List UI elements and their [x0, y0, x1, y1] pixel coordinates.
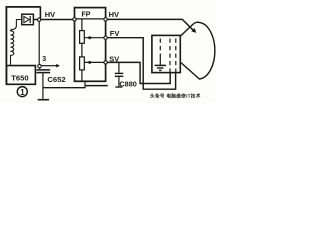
svg-text:T650: T650 [11, 74, 28, 83]
svg-text:C652: C652 [47, 75, 65, 84]
svg-text:FV: FV [110, 29, 120, 38]
svg-text:1: 1 [20, 88, 25, 97]
svg-text:FP: FP [82, 11, 91, 18]
svg-text:3: 3 [42, 56, 46, 63]
svg-text:HV: HV [45, 10, 55, 19]
svg-text:HV: HV [109, 10, 119, 19]
svg-text:头条号 电脑维修IT技术: 头条号 电脑维修IT技术 [150, 92, 201, 99]
svg-text:C880: C880 [119, 80, 136, 89]
